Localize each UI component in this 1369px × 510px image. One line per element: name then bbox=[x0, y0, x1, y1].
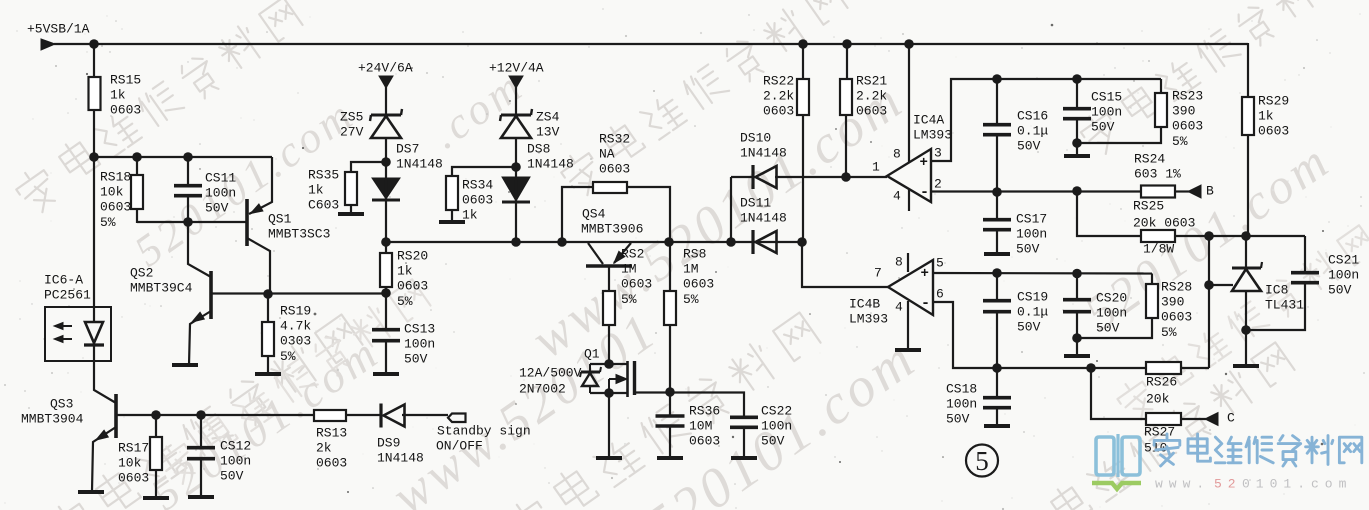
label RS20 value bbox=[397, 248, 428, 309]
junction CS15 bottom node bbox=[1072, 138, 1082, 148]
wire CS20 node ground bbox=[1076, 338, 1078, 354]
svg-text:www.: www. bbox=[1155, 476, 1210, 491]
wire QS4 collector slant bbox=[588, 243, 603, 264]
label Standby sign bbox=[436, 423, 531, 453]
wire DS10 to IC4A out bbox=[775, 176, 887, 178]
svg-text:50V: 50V bbox=[220, 469, 244, 484]
wire RS13 to DS9 bbox=[346, 414, 381, 416]
svg-text:Q1: Q1 bbox=[584, 346, 600, 361]
svg-text:MMBT39C4: MMBT39C4 bbox=[130, 281, 193, 296]
resistor RS15 bbox=[89, 77, 101, 110]
wire main to RS8 bbox=[669, 242, 671, 292]
svg-text:1k: 1k bbox=[397, 264, 413, 279]
svg-text:C603: C603 bbox=[308, 198, 339, 213]
svg-text:1N4148: 1N4148 bbox=[527, 157, 574, 172]
wire Q1 gate stub left bbox=[590, 363, 609, 365]
arrow B bbox=[1188, 185, 1201, 198]
junction DS7 node bbox=[381, 157, 391, 167]
junction top rail / IC4A pin8 bbox=[904, 39, 914, 49]
svg-text:CS19: CS19 bbox=[1017, 289, 1048, 304]
ground CS15 bbox=[1064, 154, 1090, 158]
wire opto LED cathode bbox=[93, 344, 95, 361]
wire RS27 branch down bbox=[1091, 368, 1146, 419]
wire ZS4 to DS8 node bbox=[515, 138, 517, 168]
label RS32 value bbox=[599, 131, 630, 176]
svg-text:50V: 50V bbox=[205, 201, 229, 216]
ground CS12 bbox=[188, 495, 214, 499]
svg-text:1: 1 bbox=[872, 159, 880, 174]
connector Standby tag bbox=[448, 414, 466, 423]
capacitor CS18 bbox=[983, 398, 1011, 408]
svg-text:100n: 100n bbox=[1096, 306, 1127, 321]
wire RS19 to ground bbox=[267, 356, 269, 372]
svg-text:100n: 100n bbox=[1091, 105, 1122, 120]
wire RS23 top leg bbox=[1160, 79, 1162, 94]
transistor QS2 bar bbox=[209, 271, 213, 319]
svg-text:50V: 50V bbox=[761, 434, 785, 449]
junction node A / RS18 bbox=[132, 152, 142, 162]
wire RS26 right leg bbox=[1181, 367, 1209, 369]
arrow C bbox=[1205, 413, 1218, 426]
label IC4B bbox=[849, 296, 888, 326]
svg-text:5%: 5% bbox=[397, 294, 413, 309]
ground CS22 bbox=[731, 456, 757, 460]
svg-text:C: C bbox=[1227, 410, 1235, 425]
label RS28 value bbox=[1161, 279, 1192, 340]
ground CS13 bbox=[373, 372, 399, 376]
label C bbox=[1227, 410, 1235, 425]
svg-text:50V: 50V bbox=[1017, 320, 1041, 335]
wire Q1 source line bbox=[590, 392, 628, 394]
junction top rail / RS22 bbox=[798, 39, 808, 49]
label B bbox=[1206, 183, 1214, 198]
junction DS10 wire / RS21 bbox=[841, 172, 851, 182]
wire CS11 to base wire bbox=[187, 196, 189, 223]
svg-text:-: - bbox=[921, 295, 930, 312]
resistor RS8 bbox=[664, 291, 676, 325]
label RS34 value bbox=[462, 177, 493, 222]
svg-text:CS20: CS20 bbox=[1096, 290, 1127, 305]
svg-text:CS21: CS21 bbox=[1328, 252, 1359, 267]
label Q1 bbox=[584, 346, 600, 361]
transistor QS3 bar bbox=[114, 394, 118, 438]
junction main / DS11 left bbox=[726, 237, 736, 247]
junction pin2 net / CS17 bbox=[992, 187, 1002, 197]
svg-text:0603: 0603 bbox=[100, 200, 131, 215]
svg-text:0603: 0603 bbox=[316, 456, 347, 471]
capacitor CS16 bbox=[983, 125, 1011, 135]
wire QS4 emitter slant bbox=[614, 243, 631, 263]
label QS2 bbox=[130, 265, 193, 295]
label CS19 value bbox=[1017, 289, 1048, 334]
wire IC4B pin6 out bbox=[933, 302, 1146, 368]
junction main / RS32 right RS8 bbox=[664, 237, 674, 247]
svg-text:50V: 50V bbox=[1328, 283, 1352, 298]
mosfet Q1 channel bar bbox=[633, 361, 636, 395]
label DS10 bbox=[740, 130, 787, 160]
diode DS11 bbox=[753, 230, 777, 254]
wire rail corner down to RS29 bbox=[1247, 43, 1249, 98]
junction ref / TL431 ref bbox=[1204, 280, 1214, 290]
svg-text:10M: 10M bbox=[689, 419, 712, 434]
junction main / RS32 left bbox=[557, 237, 567, 247]
label +24V/6A bbox=[358, 60, 413, 75]
ground RS34 bbox=[439, 220, 465, 224]
svg-text:0603: 0603 bbox=[110, 103, 141, 118]
svg-text:QS3: QS3 bbox=[50, 396, 73, 411]
wire DS10 anode wire bbox=[731, 176, 753, 178]
svg-text:DS11: DS11 bbox=[740, 195, 771, 210]
op-amp IC4A bbox=[887, 149, 931, 202]
resistor RS24 bbox=[1141, 186, 1175, 198]
wire drain node down RS36 bbox=[669, 392, 671, 416]
wire opto to QS3 collector bbox=[94, 361, 116, 403]
svg-text:RS32: RS32 bbox=[599, 131, 630, 146]
label IC4B pin5 bbox=[936, 255, 944, 270]
wire rail to RS15 bbox=[93, 44, 95, 78]
ic IC8 TL431 bbox=[1232, 262, 1262, 291]
svg-text:5%: 5% bbox=[683, 292, 699, 307]
svg-text:+5VSB/1A: +5VSB/1A bbox=[27, 21, 90, 36]
svg-text:RS23: RS23 bbox=[1172, 88, 1203, 103]
wire RS27 to C bbox=[1181, 418, 1206, 420]
label RS13 value bbox=[316, 425, 347, 470]
svg-text:0.1μ: 0.1μ bbox=[1017, 124, 1048, 139]
svg-text:0603: 0603 bbox=[599, 162, 630, 177]
wire main up to DS10 bbox=[730, 177, 732, 242]
svg-text:IC8: IC8 bbox=[1265, 282, 1288, 297]
resistor RS20 bbox=[380, 253, 392, 287]
wire QS2 emitter bbox=[189, 311, 211, 365]
wire to CS21 bbox=[1304, 236, 1306, 273]
sheet number 5 bbox=[966, 445, 998, 477]
label CS13 value bbox=[404, 321, 435, 366]
label Q1 ratings bbox=[519, 365, 582, 396]
ground TL431 bbox=[1233, 364, 1259, 368]
label CS18 value bbox=[946, 381, 977, 426]
wire to RS17 bbox=[155, 415, 157, 438]
svg-text:ON/OFF: ON/OFF bbox=[436, 438, 483, 453]
label IC4A minus bbox=[920, 184, 929, 201]
wire IC4B pin8 stub pre bbox=[907, 253, 909, 272]
wire node A horizontal bbox=[94, 156, 272, 158]
svg-text:50V: 50V bbox=[1017, 139, 1041, 154]
wire CS21 bottom bbox=[1246, 283, 1305, 330]
svg-text:-: - bbox=[920, 184, 929, 201]
label CS22 value bbox=[761, 403, 792, 448]
svg-text:RS20: RS20 bbox=[397, 248, 428, 263]
wire ref column bbox=[1208, 236, 1210, 368]
svg-text:50V: 50V bbox=[1096, 321, 1120, 336]
svg-text:RS36: RS36 bbox=[689, 403, 720, 418]
junction main / DS11 right bbox=[797, 237, 807, 247]
svg-text:CS18: CS18 bbox=[946, 381, 977, 396]
svg-text:CS22: CS22 bbox=[761, 403, 792, 418]
svg-text:RS35: RS35 bbox=[308, 167, 339, 182]
label IC4B pin7 bbox=[874, 265, 882, 280]
svg-text:0603: 0603 bbox=[621, 277, 652, 292]
junction RS20 / QS2 base wire bbox=[381, 288, 391, 298]
arrow Q1 body bbox=[609, 375, 627, 394]
svg-text:RS15: RS15 bbox=[110, 72, 141, 87]
svg-text:ZS5: ZS5 bbox=[340, 109, 363, 124]
junction pin5 net / CS19 bbox=[992, 268, 1002, 278]
wire RS8 to drain node bbox=[669, 325, 671, 393]
junction node A / RS15 bbox=[89, 152, 99, 162]
svg-text:RS17: RS17 bbox=[118, 440, 149, 455]
svg-text:0603: 0603 bbox=[689, 434, 720, 449]
label ZS5 bbox=[340, 109, 364, 139]
svg-text:100n: 100n bbox=[946, 397, 977, 412]
wire IC4A pin3 out bbox=[931, 79, 1161, 161]
wire CS15 bottom bbox=[1076, 119, 1078, 144]
label RS2 value bbox=[621, 246, 652, 307]
wire top +5VSB rail bbox=[54, 43, 1248, 45]
resistor RS21 bbox=[840, 79, 852, 115]
label RS19 value bbox=[280, 303, 311, 364]
logo site name bbox=[1154, 434, 1362, 466]
wire IC4A pin4 stub bbox=[908, 189, 910, 211]
svg-text:27V: 27V bbox=[340, 125, 364, 140]
svg-text:LM393: LM393 bbox=[849, 312, 888, 327]
svg-text:5%: 5% bbox=[621, 292, 637, 307]
svg-text:2: 2 bbox=[934, 176, 942, 191]
svg-text:CS17: CS17 bbox=[1016, 211, 1047, 226]
wire CS15 node to ground bbox=[1076, 143, 1078, 155]
svg-text:RS24: RS24 bbox=[1134, 151, 1165, 166]
label QS3 bbox=[21, 396, 84, 426]
zener ZS5 bbox=[370, 109, 402, 138]
label CS20 value bbox=[1096, 290, 1127, 335]
svg-text:0603: 0603 bbox=[1172, 119, 1203, 134]
svg-text:1N4148: 1N4148 bbox=[377, 451, 424, 466]
resistor RS13 bbox=[314, 410, 346, 421]
wire opto LED anode bbox=[93, 308, 95, 323]
svg-text:10k: 10k bbox=[100, 185, 124, 200]
junction base wire / QS2 collector bbox=[183, 217, 193, 227]
wire drain node to CS22 bbox=[670, 393, 744, 419]
wire RS32 right leg bbox=[627, 187, 670, 242]
wire DS7 node to RS35 bbox=[351, 162, 386, 173]
svg-text:IC4B: IC4B bbox=[849, 296, 880, 311]
wire RS29 down bbox=[1247, 135, 1249, 236]
wire node A down to opto bbox=[93, 157, 95, 308]
svg-text:RS26: RS26 bbox=[1146, 374, 1177, 389]
svg-text:8: 8 bbox=[893, 146, 901, 161]
resistor RS35 bbox=[345, 172, 357, 205]
wire RS20 to CS13 node bbox=[385, 287, 387, 294]
ground RS35 bbox=[338, 212, 364, 216]
mosfet Q1 gate bar bbox=[626, 361, 629, 397]
label RS27 value bbox=[1144, 424, 1175, 455]
wire TL431 to ground bbox=[1245, 330, 1247, 364]
wire +24V to ZS5 bbox=[385, 86, 387, 116]
diode DS9 bbox=[381, 404, 405, 428]
label QS4 bbox=[581, 206, 643, 236]
wire DS8 node to RS34 bbox=[452, 167, 516, 177]
junction pin2 net / CS15col bbox=[1072, 186, 1082, 196]
wire RS32 left leg bbox=[562, 187, 594, 242]
diode DS10 bbox=[753, 165, 777, 189]
svg-text:+: + bbox=[920, 155, 928, 171]
wire RS18 to base wire bbox=[136, 209, 138, 223]
logo url bbox=[1155, 476, 1352, 491]
label +5VSB/1A bbox=[27, 21, 90, 36]
wire QS1 collector bbox=[247, 238, 270, 294]
junction QS1 collector / RS19 bbox=[263, 289, 273, 299]
label IC4A bbox=[913, 112, 952, 142]
label +12V/4A bbox=[489, 60, 544, 75]
ground QS3 emitter bbox=[78, 490, 104, 494]
svg-text:0603: 0603 bbox=[1258, 124, 1289, 139]
wire RS23 bottom leg bbox=[1077, 127, 1161, 143]
resistor RS18 bbox=[131, 175, 143, 209]
junction RS25 / ref column bbox=[1204, 231, 1214, 241]
wire CS16 top bbox=[996, 79, 998, 125]
junction base / CS12 bbox=[196, 410, 206, 420]
wire node A to CS11 bbox=[187, 157, 189, 186]
opto light arrow 2 bbox=[54, 336, 72, 343]
resistor RS26 bbox=[1146, 362, 1181, 374]
svg-text:RS29: RS29 bbox=[1258, 93, 1289, 108]
label RS8 value bbox=[683, 246, 714, 307]
wire DS9 to connector bbox=[402, 414, 448, 416]
wire IC4A pin2 out bbox=[931, 190, 1141, 192]
wire CS17 top bbox=[996, 192, 998, 220]
svg-text:NA: NA bbox=[599, 147, 615, 162]
label RS35 value bbox=[308, 167, 339, 212]
wire DS8 to main net bbox=[515, 167, 517, 242]
junction top rail / RS21 bbox=[842, 39, 852, 49]
wire CS17 to ground bbox=[996, 230, 998, 252]
svg-text:RS22: RS22 bbox=[763, 73, 794, 88]
svg-text:0101.com: 0101.com bbox=[1242, 476, 1352, 491]
label CS11 value bbox=[205, 170, 236, 215]
wire RS35 to ground bbox=[350, 205, 352, 212]
svg-text:0603: 0603 bbox=[118, 471, 149, 486]
svg-text:CS16: CS16 bbox=[1017, 108, 1048, 123]
svg-text:1M: 1M bbox=[683, 262, 699, 277]
svg-text:CS15: CS15 bbox=[1091, 89, 1122, 104]
junction drain node bbox=[665, 387, 675, 397]
wire CS18 to ground bbox=[996, 408, 998, 425]
diode DS8 bbox=[502, 177, 530, 202]
wire CS12 to ground bbox=[200, 459, 202, 496]
ground RS17 bbox=[143, 496, 169, 500]
label RS15 value bbox=[110, 72, 141, 117]
svg-text:0603: 0603 bbox=[397, 279, 428, 294]
transistor QS1 bar bbox=[245, 199, 249, 246]
wire CS13 to ground bbox=[385, 341, 387, 372]
resistor RS2 bbox=[603, 291, 615, 325]
svg-text:RS8: RS8 bbox=[683, 246, 706, 261]
label CS21 value bbox=[1328, 252, 1359, 297]
svg-text:100n: 100n bbox=[404, 337, 435, 352]
label IC6-A bbox=[44, 272, 91, 302]
svg-text:RS21: RS21 bbox=[856, 73, 887, 88]
ground CS17 bbox=[984, 252, 1010, 256]
label RS23 value bbox=[1172, 88, 1203, 149]
wire Q1 drain bbox=[634, 391, 670, 393]
label IC4A plus bbox=[920, 155, 928, 171]
svg-text:RS28: RS28 bbox=[1161, 279, 1192, 294]
wire QS3 base bbox=[116, 414, 315, 416]
svg-text:RS19: RS19 bbox=[280, 303, 311, 318]
wire CS20 bottom bbox=[1076, 312, 1078, 338]
junction node A / CS11 bbox=[183, 152, 193, 162]
junction CS20 bottom node bbox=[1072, 333, 1082, 343]
svg-text:0603: 0603 bbox=[683, 277, 714, 292]
transistor QS4 bar bbox=[586, 264, 632, 268]
wire RS17 to ground bbox=[155, 470, 157, 497]
junction RS25 / TL431 bbox=[1241, 231, 1251, 241]
svg-text:MMBT3904: MMBT3904 bbox=[21, 411, 84, 426]
svg-text:1k: 1k bbox=[110, 88, 126, 103]
svg-text:1N4148: 1N4148 bbox=[740, 211, 787, 226]
capacitor CS13 bbox=[372, 330, 400, 341]
wire IC4B pin4 bbox=[907, 301, 909, 349]
label IC4A pin8 bbox=[893, 146, 901, 161]
ground CS18 bbox=[984, 424, 1010, 428]
wire RS22 to DS11 node bbox=[802, 115, 804, 242]
wire pin2 node down bbox=[1077, 191, 1141, 236]
capacitor CS17 bbox=[983, 220, 1011, 230]
wire CS18 top bbox=[996, 368, 998, 398]
wire QS1 emitter corner bbox=[249, 157, 272, 214]
label RS21 value bbox=[856, 73, 887, 118]
junction pin6 net / RS27 branch bbox=[1086, 363, 1096, 373]
svg-text:12A/500V: 12A/500V bbox=[519, 365, 582, 380]
svg-text:RS27: RS27 bbox=[1144, 424, 1175, 439]
junction top rail / RS15 bbox=[89, 39, 99, 49]
wire RS25 to TL431 node bbox=[1175, 235, 1305, 237]
svg-text:0603: 0603 bbox=[856, 104, 887, 119]
svg-text:50V: 50V bbox=[404, 352, 428, 367]
svg-text:2.2k: 2.2k bbox=[856, 89, 887, 104]
svg-text:ZS4: ZS4 bbox=[536, 109, 560, 124]
svg-text:DS8: DS8 bbox=[527, 141, 550, 156]
svg-text:50V: 50V bbox=[1091, 120, 1115, 135]
wire RS34 to ground bbox=[451, 210, 453, 220]
svg-text:QS2: QS2 bbox=[130, 265, 153, 280]
arrow QS4 emitter bbox=[614, 251, 625, 263]
svg-text:+24V/6A: +24V/6A bbox=[358, 60, 413, 75]
label ZS4 bbox=[536, 109, 560, 139]
junction TL431 anode / CS21 bbox=[1241, 325, 1251, 335]
wire CS19 bottom bbox=[996, 312, 998, 368]
svg-text:4: 4 bbox=[893, 188, 901, 203]
resistor RS36 (cap style) bbox=[656, 416, 685, 426]
wire IC4B out pin7 bbox=[802, 242, 888, 287]
label DS8 bbox=[527, 141, 574, 171]
junction main / DS8 bbox=[511, 237, 521, 247]
svg-text:QS4: QS4 bbox=[582, 206, 606, 221]
wire to RS19 bbox=[267, 294, 269, 323]
arrow QS3 emitter bbox=[96, 430, 108, 440]
capacitor CS11 bbox=[174, 186, 202, 196]
svg-text:IC6-A: IC6-A bbox=[44, 272, 83, 287]
label RS36 value bbox=[689, 403, 720, 448]
label DS11 bbox=[740, 195, 787, 225]
label RS24 value bbox=[1134, 151, 1181, 181]
label RS26 value bbox=[1146, 374, 1177, 406]
svg-text:B: B bbox=[1206, 183, 1214, 198]
svg-text:2k: 2k bbox=[316, 441, 332, 456]
svg-text:50V: 50V bbox=[946, 412, 970, 427]
ground Q1 source bbox=[596, 456, 622, 460]
wire IC4B pin5 out bbox=[933, 272, 1152, 275]
svg-text:2.2k: 2.2k bbox=[763, 89, 794, 104]
